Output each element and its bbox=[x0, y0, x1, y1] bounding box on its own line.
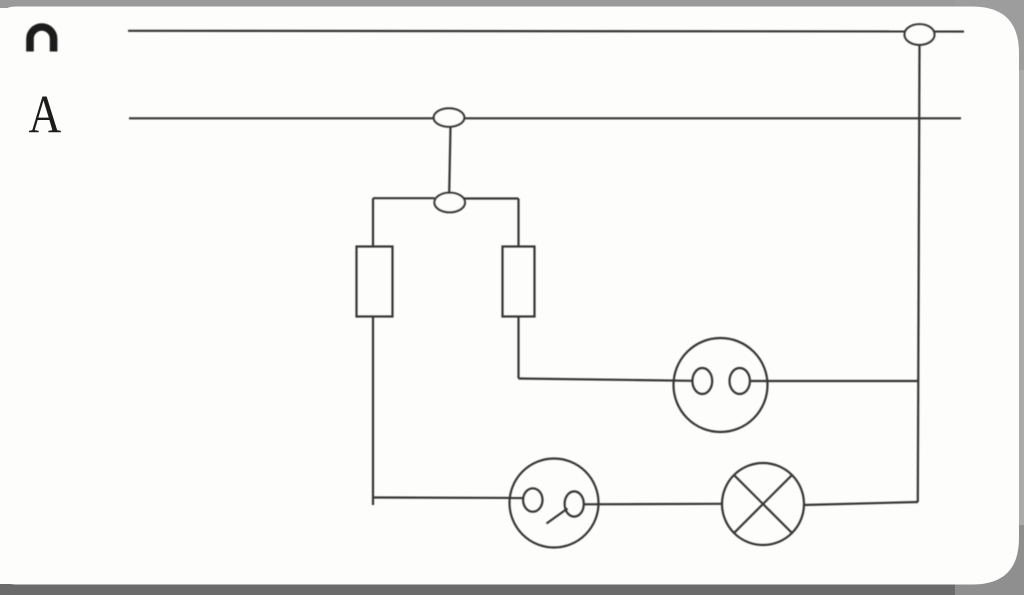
wire: socket O1 to right drop bbox=[750, 380, 918, 382]
node: distribution oval below bus A bbox=[434, 193, 465, 213]
fuse F1 (left rectangle) bbox=[357, 247, 393, 317]
bus line O (top horizontal wire) bbox=[128, 30, 964, 33]
socket O1 left pin bbox=[692, 368, 712, 394]
corner grey (bottom-right) bbox=[955, 525, 1024, 595]
switch S1 right pin bbox=[565, 491, 584, 516]
lamp L1 (circle with cross) bbox=[722, 463, 804, 545]
fuse F2 (right rectangle) bbox=[503, 247, 535, 317]
wire: left branch vertical to fuse 1 bbox=[372, 198, 374, 246]
corner grey (top-right) bbox=[955, 0, 1024, 70]
bus line A (second horizontal wire) bbox=[129, 117, 961, 119]
socket O1 right pin bbox=[730, 368, 750, 394]
bottom grey bar bbox=[0, 584, 1024, 595]
socket outlet O1 (circle with two pin ovals) bbox=[674, 338, 768, 432]
wire: right branch horizontal bbox=[465, 197, 519, 199]
switch S1 left pin bbox=[523, 488, 542, 511]
wire: lamp to right drop (bottom right horizontal) bbox=[804, 502, 919, 505]
node tap on bus A (oval connector) bbox=[434, 108, 465, 126]
svg-text:A: A bbox=[29, 85, 62, 145]
lamp L1 cross stroke 1 bbox=[734, 475, 792, 533]
switch S1 (circle with pins and lever) bbox=[510, 459, 599, 548]
top grey bar bbox=[0, 0, 1024, 8]
right grey strip bbox=[1018, 0, 1024, 595]
wire: stub between tap ovals bbox=[449, 127, 450, 193]
wire: right branch vertical to fuse 2 bbox=[517, 199, 519, 247]
wire: left branch horizontal bbox=[373, 197, 435, 199]
label O (neutral bus) bbox=[30, 27, 54, 51]
wire: switch to lamp bbox=[584, 503, 723, 506]
wire: fuse 2 down bbox=[517, 317, 519, 379]
lamp L1 cross stroke 2 bbox=[734, 475, 792, 533]
wire: right vertical drop from O-line tap bbox=[918, 45, 920, 503]
node tap on bus O (oval connector) bbox=[905, 24, 935, 45]
switch S1 lever bbox=[547, 509, 568, 524]
wire: middle row horizontal to socket bbox=[519, 379, 693, 381]
wire: fuse 1 down to bottom row bbox=[372, 317, 374, 506]
wire: bottom row horizontal to switch bbox=[373, 496, 523, 499]
